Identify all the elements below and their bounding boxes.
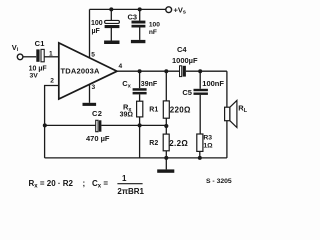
terminal Vi xyxy=(17,54,23,60)
capacitor C2 (right plate, filled) xyxy=(99,120,102,131)
wire speaker bottom lead xyxy=(226,121,228,158)
wire C3 branch bottom xyxy=(139,27,141,40)
wire top supply rail xyxy=(90,8,166,10)
svg-text:39Ω: 39Ω xyxy=(120,112,134,119)
svg-text:C4: C4 xyxy=(177,45,187,54)
svg-text:100nF: 100nF xyxy=(202,79,224,88)
svg-text:R3: R3 xyxy=(203,134,212,141)
capacitor C4 (right plate, filled) xyxy=(183,66,186,77)
resistor R1 xyxy=(163,101,169,118)
svg-text:2πBR1: 2πBR1 xyxy=(117,187,144,196)
svg-text:Cx: Cx xyxy=(122,79,131,89)
wire output to R1 xyxy=(165,71,167,101)
capacitor C3 (plate 1) xyxy=(132,21,146,24)
svg-text:Cx =: Cx = xyxy=(92,179,108,190)
ground (C3) xyxy=(131,40,146,43)
speaker RL (cone) xyxy=(230,100,237,127)
svg-text:S - 3205: S - 3205 xyxy=(206,178,232,185)
wire Rx to feedback node xyxy=(139,117,141,126)
wire pin 3 to ground xyxy=(89,85,91,103)
wire pin 2 to feedback node xyxy=(45,86,59,126)
wire feedback node to R2 xyxy=(165,125,167,134)
wire C3 branch top xyxy=(139,9,141,20)
junction node (C3 at rail) xyxy=(138,7,142,11)
junction node (100uF at rail) xyxy=(109,7,113,11)
svg-text:RL: RL xyxy=(238,104,247,115)
capacitor C5 (plate 2) xyxy=(194,93,208,95)
wire Cx to Rx xyxy=(139,94,141,101)
svg-text:3V: 3V xyxy=(30,73,39,80)
svg-text:100: 100 xyxy=(149,21,160,28)
wire C5 to R3 xyxy=(199,95,201,134)
junction node (Cx at output) xyxy=(138,69,142,73)
svg-text:2: 2 xyxy=(50,77,54,84)
capacitor 100uF supply (top plate) xyxy=(105,20,120,23)
svg-text:+Vs: +Vs xyxy=(174,5,186,15)
svg-text:1000µF: 1000µF xyxy=(172,56,198,65)
svg-text:1: 1 xyxy=(122,174,127,183)
svg-text:220Ω: 220Ω xyxy=(170,106,191,115)
capacitor C2 (left plate, outline) xyxy=(96,120,98,131)
wire output pin 4 to C4 xyxy=(117,70,180,72)
svg-text:C2: C2 xyxy=(92,109,102,118)
svg-text:5: 5 xyxy=(91,52,95,59)
capacitor 100uF supply (bottom plate) xyxy=(105,25,120,28)
capacitor C3 (plate 2) xyxy=(132,25,146,28)
svg-text:Vi: Vi xyxy=(12,43,19,53)
wire Rx node down to bottom rail xyxy=(139,125,141,157)
svg-text:100: 100 xyxy=(91,20,103,27)
capacitor Cx (plate 2) xyxy=(133,92,147,95)
svg-text:470 µF: 470 µF xyxy=(86,134,110,143)
wire feedback left segment xyxy=(45,124,96,126)
svg-text:39nF: 39nF xyxy=(141,81,158,88)
wire feedback right segment xyxy=(101,124,166,126)
wire input Vi to C1 xyxy=(23,56,36,58)
capacitor C5 (plate 1) xyxy=(194,89,208,91)
resistor Rx xyxy=(137,101,143,117)
svg-text:R1: R1 xyxy=(149,107,158,114)
svg-text:R2: R2 xyxy=(149,140,158,147)
svg-text:4: 4 xyxy=(119,63,123,70)
svg-text:µF: µF xyxy=(92,28,101,35)
resistor R2 xyxy=(163,134,169,151)
op-amp U1 TDA2003A xyxy=(59,43,117,99)
wire bottom rail xyxy=(45,157,227,159)
wire C1 to pin 1 xyxy=(44,56,58,58)
svg-text:C1: C1 xyxy=(35,39,45,48)
fraction bar xyxy=(117,183,142,185)
wire C4 to speaker corner xyxy=(186,70,227,72)
junction node (Rx at feedback wire) xyxy=(138,123,142,127)
wire Cx branch xyxy=(139,71,141,88)
wire 100uF branch bottom xyxy=(110,28,112,41)
junction node (R2 at rail) xyxy=(164,156,168,160)
svg-text:1: 1 xyxy=(49,50,53,57)
wire C5 branch top xyxy=(199,71,201,89)
ground (pin 3) xyxy=(83,103,97,106)
svg-text:nF: nF xyxy=(149,29,157,36)
capacitor C1 (left plate, filled) xyxy=(36,49,39,61)
svg-text:Rx = 20 · R2: Rx = 20 · R2 xyxy=(29,179,74,190)
junction node (R1/R2) xyxy=(164,124,168,128)
wire 100uF branch top xyxy=(110,9,112,20)
svg-text:C5: C5 xyxy=(182,88,192,97)
capacitor C1 (right plate, outline) xyxy=(41,49,44,61)
wire R2 to bottom rail xyxy=(165,151,167,158)
wire ground stub below R2 xyxy=(165,158,167,170)
speaker RL (frame) xyxy=(225,107,230,121)
junction node (C5 at output) xyxy=(198,69,202,73)
svg-text:TDA2003A: TDA2003A xyxy=(61,66,100,75)
svg-text:1Ω: 1Ω xyxy=(203,143,213,150)
capacitor C4 (left plate, outline) xyxy=(180,66,182,77)
junction node (R3 at rail) xyxy=(198,156,202,160)
svg-text:;: ; xyxy=(83,179,86,188)
junction node (pin2/feedback) xyxy=(43,123,47,127)
ground (main, below R2) xyxy=(157,169,174,172)
resistor R3 xyxy=(197,134,203,151)
svg-text:3: 3 xyxy=(92,84,96,91)
wire supply vertical to pin 5 xyxy=(89,9,91,57)
capacitor Cx (plate 1) xyxy=(133,88,147,91)
svg-text:2.2Ω: 2.2Ω xyxy=(169,139,188,148)
junction node (R1 at output) xyxy=(164,69,168,73)
wire pin2 node down to bottom rail xyxy=(44,125,46,157)
ground (100uF) xyxy=(104,41,119,45)
svg-text:C3: C3 xyxy=(128,13,138,22)
wire speaker top lead xyxy=(226,71,228,107)
terminal +Vs xyxy=(166,7,172,13)
wire R3 to bottom rail xyxy=(199,151,201,158)
wire R1 to feedback node xyxy=(165,118,167,125)
